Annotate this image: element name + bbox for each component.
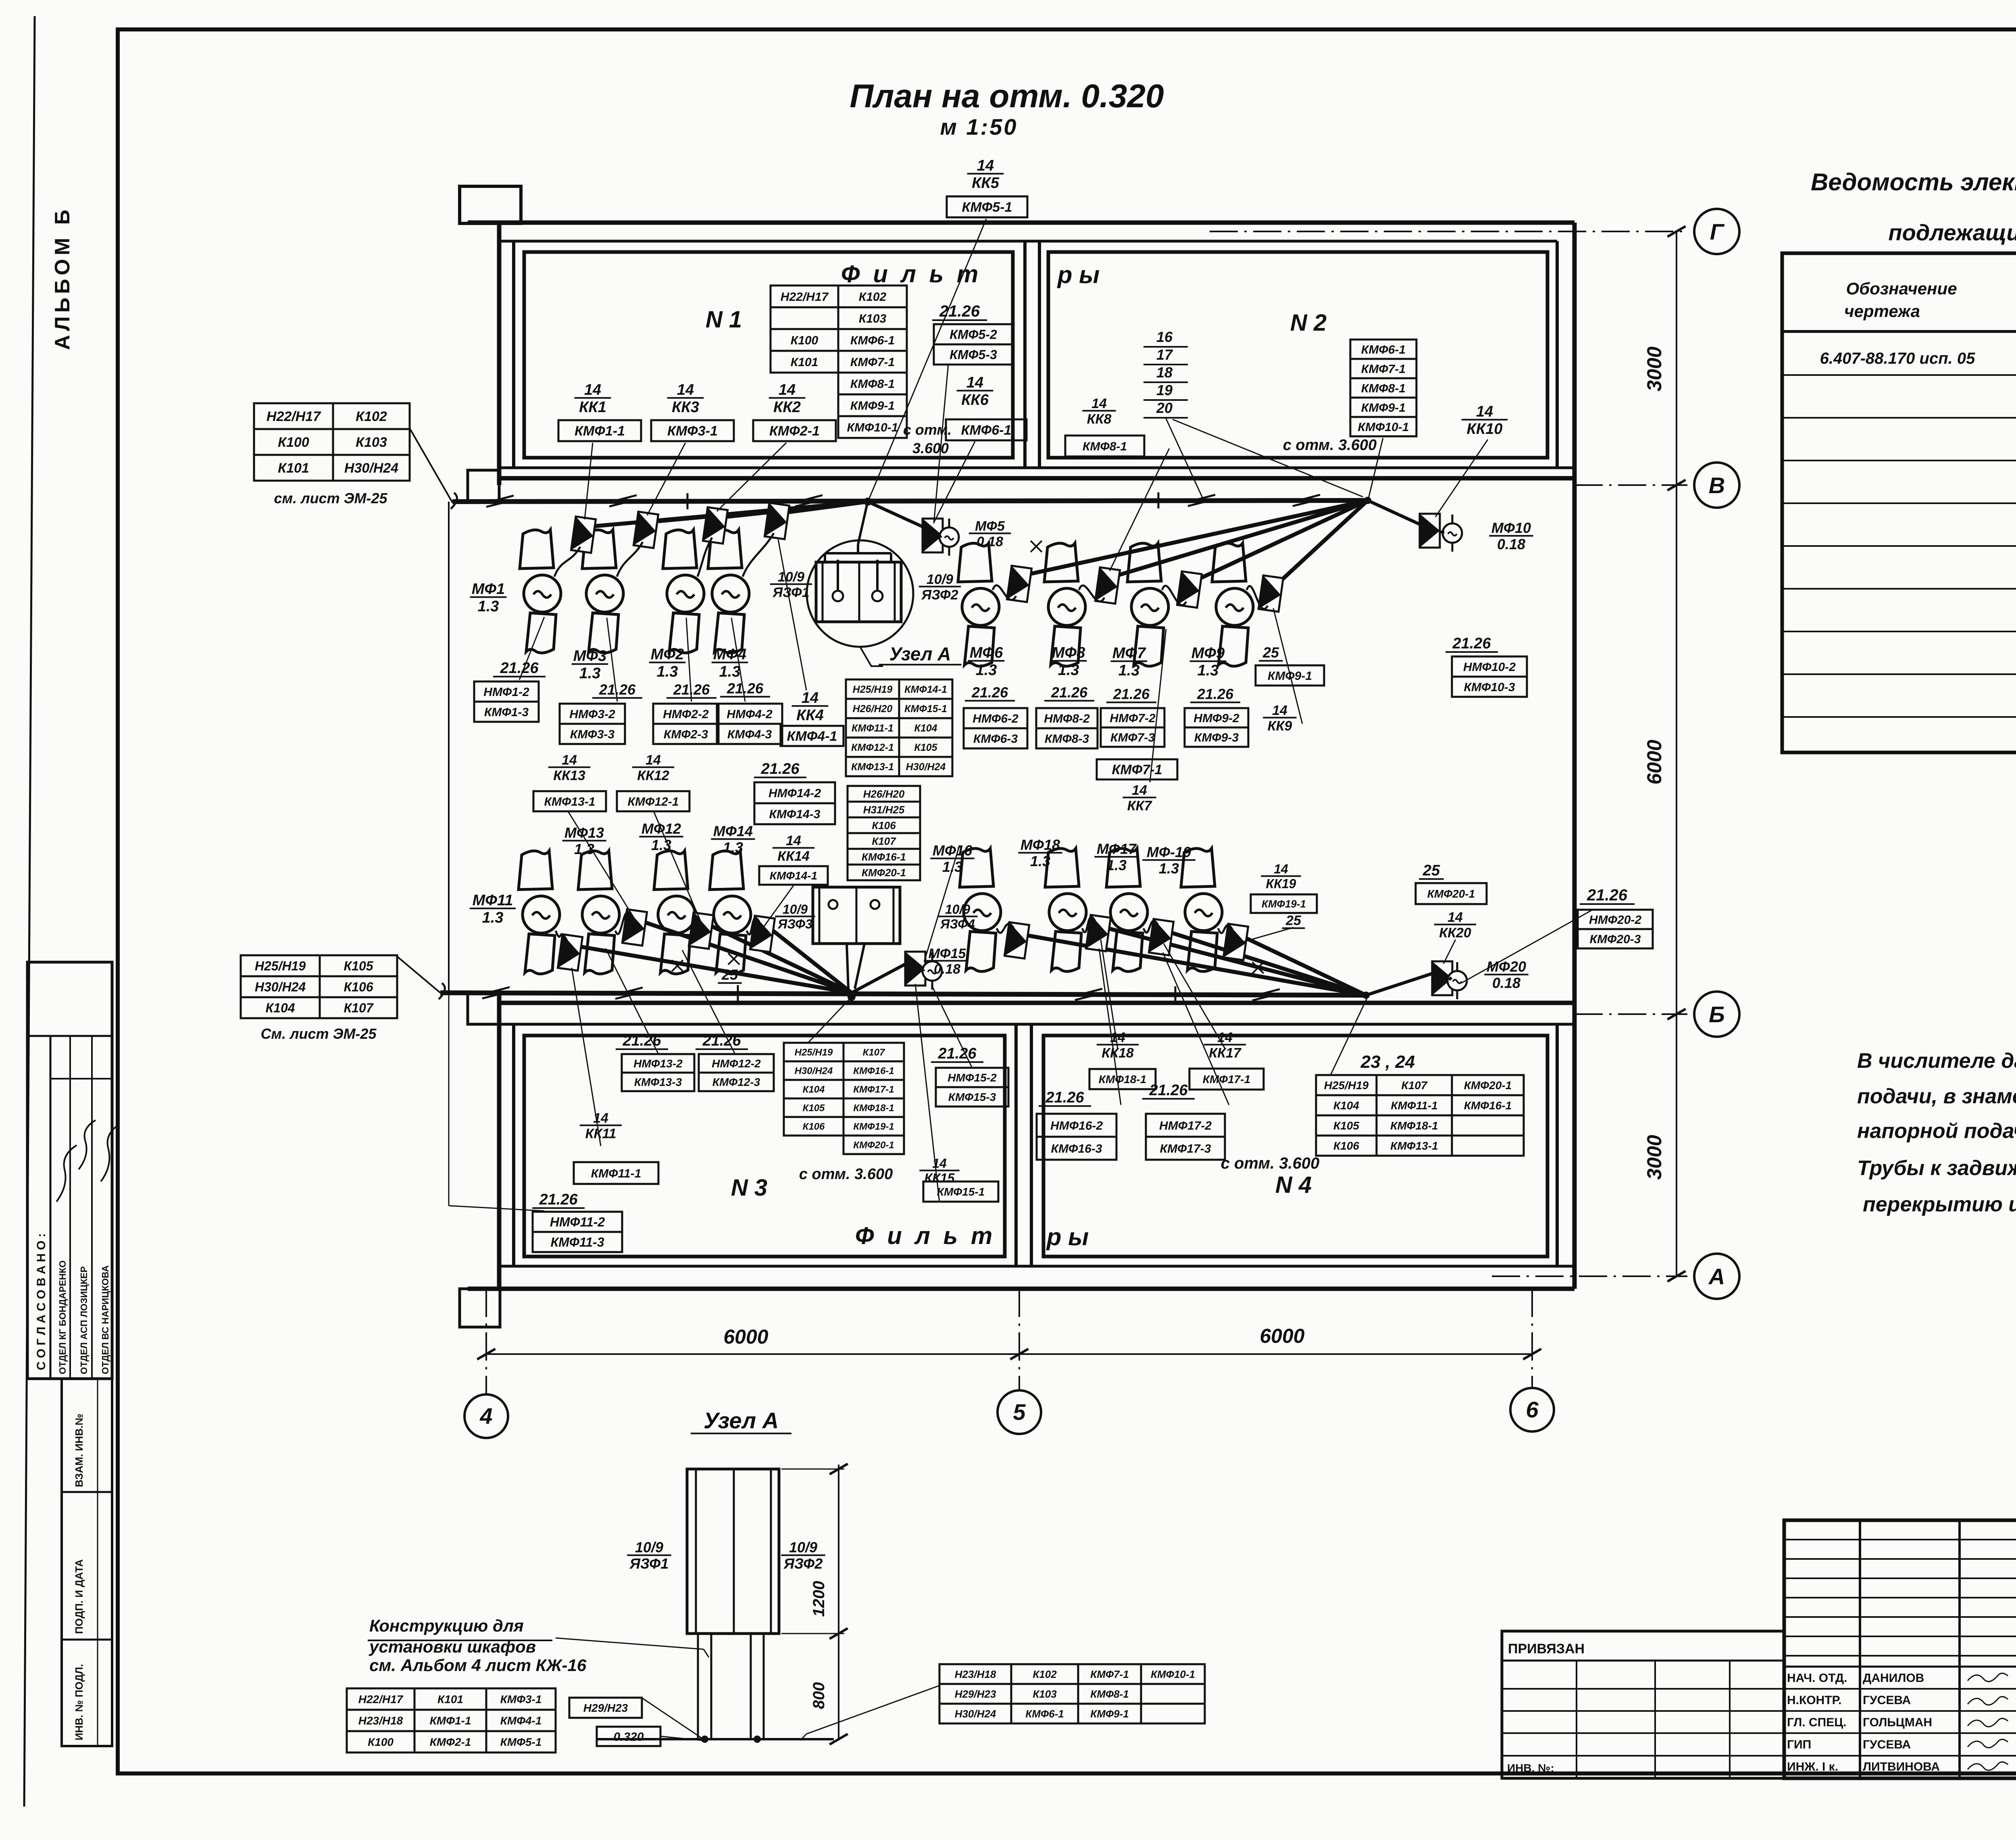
svg-text:К102: К102: [1033, 1668, 1057, 1680]
svg-text:18: 18: [1156, 364, 1173, 381]
svg-text:КК11: КК11: [585, 1126, 616, 1141]
svg-text:К107: К107: [1402, 1079, 1428, 1092]
svg-text:0.18: 0.18: [1492, 975, 1520, 991]
svg-text:К104: К104: [803, 1084, 825, 1095]
svg-text:КК4: КК4: [796, 707, 824, 724]
svg-text:КМФ4-3: КМФ4-3: [727, 728, 772, 741]
svg-text:К101: К101: [791, 356, 818, 369]
svg-text:ВЗАМ. ИНВ.№: ВЗАМ. ИНВ.№: [73, 1414, 85, 1487]
svg-text:КМФ5-3: КМФ5-3: [950, 348, 997, 362]
svg-text:14: 14: [1272, 703, 1287, 718]
svg-text:НМФ3-2: НМФ3-2: [569, 708, 615, 721]
svg-text:АЛЬБОМ Б: АЛЬБОМ Б: [51, 206, 74, 350]
svg-text:21.26: 21.26: [599, 681, 636, 698]
svg-text:с отм.: с отм.: [903, 421, 952, 438]
svg-text:МФ6: МФ6: [970, 644, 1003, 661]
svg-text:ДАНИЛОВ: ДАНИЛОВ: [1863, 1671, 1924, 1685]
svg-text:КМФ11-1: КМФ11-1: [591, 1167, 641, 1180]
svg-text:1200: 1200: [810, 1581, 828, 1617]
svg-text:КМФ10-1: КМФ10-1: [1151, 1668, 1195, 1680]
svg-text:с отм. 3.600: с отм. 3.600: [799, 1166, 893, 1183]
svg-text:КМФ8-1: КМФ8-1: [850, 377, 895, 391]
svg-text:23 , 24: 23 , 24: [1360, 1052, 1415, 1072]
svg-text:Конструкцию для: Конструкцию для: [369, 1616, 524, 1635]
svg-text:см. Альбом 4 лист КЖ-16: см. Альбом 4 лист КЖ-16: [369, 1656, 587, 1675]
svg-text:КК3: КК3: [672, 399, 699, 416]
svg-text:НМФ10-2: НМФ10-2: [1463, 661, 1516, 674]
svg-text:НМФ8-2: НМФ8-2: [1044, 712, 1090, 725]
svg-text:НМФ14-2: НМФ14-2: [768, 787, 821, 800]
svg-text:КМФ20-1: КМФ20-1: [1427, 888, 1475, 900]
svg-text:21.26: 21.26: [760, 761, 800, 777]
svg-text:НМФ9-2: НМФ9-2: [1193, 712, 1239, 725]
svg-text:ЯЗФ1: ЯЗФ1: [772, 585, 809, 600]
svg-text:17: 17: [1156, 346, 1173, 363]
svg-text:КК20: КК20: [1439, 925, 1471, 940]
svg-text:К105: К105: [914, 742, 937, 753]
svg-text:КМФ17-3: КМФ17-3: [1160, 1142, 1211, 1155]
svg-text:Ф и л ь т: Ф и л ь т: [855, 1222, 996, 1249]
svg-text:ИНВ. №:: ИНВ. №:: [1507, 1762, 1554, 1774]
svg-text:1.3: 1.3: [478, 598, 499, 615]
svg-text:10/9: 10/9: [783, 902, 808, 917]
svg-text:Н23/Н18: Н23/Н18: [955, 1668, 996, 1680]
svg-text:К100: К100: [278, 435, 309, 450]
svg-text:В числителе данные для вари: В числителе данные для варианта самотечн…: [1857, 1049, 2016, 1073]
svg-text:КК13: КК13: [553, 768, 585, 783]
svg-text:21.26: 21.26: [1452, 635, 1491, 652]
svg-text:14: 14: [646, 752, 661, 768]
svg-text:КМФ11-3: КМФ11-3: [551, 1235, 604, 1250]
svg-text:Н30/Н24: Н30/Н24: [795, 1066, 833, 1077]
svg-text:КМФ13-1: КМФ13-1: [851, 761, 894, 773]
svg-text:ГОЛЬЦМАН: ГОЛЬЦМАН: [1863, 1716, 1932, 1729]
svg-text:МФ17: МФ17: [1097, 841, 1137, 857]
svg-text:ГИП: ГИП: [1787, 1738, 1811, 1751]
svg-text:КМФ16-1: КМФ16-1: [1464, 1099, 1512, 1112]
svg-text:НМФ2-2: НМФ2-2: [663, 708, 709, 721]
svg-text:КМФ3-1: КМФ3-1: [667, 423, 718, 439]
svg-text:1.3: 1.3: [1030, 853, 1050, 869]
svg-text:МФ20: МФ20: [1487, 959, 1526, 975]
svg-text:К107: К107: [872, 835, 896, 847]
svg-text:НМФ7-2: НМФ7-2: [1110, 712, 1156, 725]
svg-text:0.18: 0.18: [1497, 536, 1525, 552]
svg-text:К101: К101: [437, 1693, 463, 1706]
svg-text:14: 14: [562, 752, 577, 768]
svg-text:1.3: 1.3: [1118, 662, 1140, 679]
svg-text:Н22/Н17: Н22/Н17: [358, 1693, 404, 1706]
svg-text:МФ5: МФ5: [975, 519, 1005, 534]
svg-text:1.3: 1.3: [1198, 662, 1219, 679]
svg-text:КМФ8-1: КМФ8-1: [1090, 1688, 1129, 1700]
svg-text:1.3: 1.3: [942, 859, 962, 875]
svg-text:КМФ16-1: КМФ16-1: [862, 851, 906, 863]
svg-text:Н30/Н24: Н30/Н24: [955, 1708, 996, 1720]
svg-text:перекрытию и крепить скобам: перекрытию и крепить скобами.: [1863, 1193, 2016, 1216]
svg-text:КМФ7-3: КМФ7-3: [1110, 731, 1155, 744]
svg-text:К104: К104: [265, 1001, 295, 1015]
svg-text:Н26/Н20: Н26/Н20: [863, 788, 905, 800]
svg-text:МФ11: МФ11: [473, 892, 513, 909]
svg-text:Н31/Н25: Н31/Н25: [863, 804, 905, 816]
svg-text:N 2: N 2: [1290, 310, 1327, 336]
svg-text:14: 14: [977, 157, 994, 174]
svg-text:установки шкафов: установки шкафов: [369, 1637, 536, 1656]
svg-text:КМФ17-1: КМФ17-1: [1203, 1073, 1250, 1086]
svg-text:1.3: 1.3: [657, 663, 678, 680]
svg-text:подлежащих изготовлению в мэ: подлежащих изготовлению в мэз: [1888, 220, 2016, 245]
svg-text:25: 25: [721, 967, 738, 983]
svg-text:Обозначение: Обозначение: [1846, 279, 1957, 298]
svg-text:К104: К104: [1333, 1099, 1359, 1112]
svg-text:К105: К105: [803, 1103, 825, 1114]
svg-text:14: 14: [1476, 403, 1493, 420]
svg-text:21.26: 21.26: [1197, 686, 1234, 702]
svg-text:Узел А: Узел А: [889, 644, 951, 665]
svg-text:25: 25: [1422, 862, 1440, 879]
svg-text:14: 14: [584, 381, 601, 398]
svg-text:0.18: 0.18: [934, 961, 960, 977]
svg-text:КМФ5-1: КМФ5-1: [962, 200, 1012, 215]
svg-text:Н25/Н19: Н25/Н19: [1324, 1079, 1369, 1092]
svg-text:НМФ20-2: НМФ20-2: [1589, 913, 1641, 927]
svg-text:Н23/Н18: Н23/Н18: [358, 1715, 403, 1727]
svg-text:КМФ7-1: КМФ7-1: [1361, 363, 1406, 376]
svg-text:КМФ1-3: КМФ1-3: [484, 706, 529, 719]
svg-text:КМФ3-3: КМФ3-3: [570, 728, 615, 741]
svg-text:Ведомость электромонтажных к: Ведомость электромонтажных конструкций: [1811, 169, 2016, 196]
svg-text:МФ10: МФ10: [1491, 520, 1531, 536]
svg-text:КМФ15-3: КМФ15-3: [948, 1091, 996, 1103]
svg-text:14: 14: [1091, 396, 1107, 411]
svg-text:КМФ10-1: КМФ10-1: [847, 421, 898, 434]
svg-text:подачи, в знаменателе данные: подачи, в знаменателе данные для вариант…: [1857, 1085, 2016, 1108]
svg-text:Г: Г: [1710, 219, 1725, 244]
svg-text:К101: К101: [278, 461, 309, 476]
svg-text:КМФ9-1: КМФ9-1: [1090, 1708, 1129, 1720]
svg-text:МФ16: МФ16: [933, 842, 973, 859]
svg-text:1.3: 1.3: [976, 662, 997, 679]
svg-text:КМФ13-1: КМФ13-1: [544, 795, 596, 809]
svg-text:КМФ6-1: КМФ6-1: [1361, 343, 1406, 356]
svg-text:21.26: 21.26: [500, 660, 539, 677]
svg-text:КМФ11-1: КМФ11-1: [852, 723, 893, 734]
svg-text:КМФ20-1: КМФ20-1: [1464, 1079, 1512, 1092]
svg-text:0.18: 0.18: [977, 534, 1003, 549]
svg-text:КМФ10-1: КМФ10-1: [1358, 421, 1409, 434]
svg-text:Н30/Н24: Н30/Н24: [255, 980, 306, 994]
svg-text:НМФ13-2: НМФ13-2: [633, 1057, 683, 1070]
svg-text:КМФ6-1: КМФ6-1: [850, 334, 895, 347]
svg-text:Узел А: Узел А: [704, 1408, 779, 1433]
svg-text:6.407-88.170 исп. 05: 6.407-88.170 исп. 05: [1820, 350, 1975, 367]
svg-text:ЯЗФ4: ЯЗФ4: [940, 917, 975, 931]
svg-text:К106: К106: [803, 1121, 825, 1132]
svg-text:К104: К104: [914, 723, 937, 734]
svg-text:А: А: [1708, 1264, 1725, 1289]
svg-text:МФ4: МФ4: [713, 646, 746, 663]
svg-text:КМФ1-1: КМФ1-1: [575, 423, 625, 439]
svg-text:КК2: КК2: [773, 399, 801, 416]
svg-text:м 1:50: м 1:50: [940, 114, 1018, 140]
svg-text:КК14: КК14: [777, 848, 810, 864]
svg-text:КМФ13-3: КМФ13-3: [634, 1076, 682, 1088]
svg-text:N 3: N 3: [731, 1175, 767, 1201]
svg-text:ЛИТВИНОВА: ЛИТВИНОВА: [1863, 1760, 1940, 1773]
svg-text:Н29/Н23: Н29/Н23: [955, 1688, 996, 1700]
svg-text:0.320: 0.320: [613, 1730, 644, 1744]
svg-text:5: 5: [1013, 1399, 1026, 1425]
svg-text:ИНВ. № ПОДЛ.: ИНВ. № ПОДЛ.: [73, 1664, 85, 1740]
svg-text:КК19: КК19: [1266, 876, 1296, 891]
svg-text:Н22/Н17: Н22/Н17: [267, 409, 321, 424]
svg-text:КМФ10-3: КМФ10-3: [1464, 681, 1515, 694]
svg-text:НМФ17-2: НМФ17-2: [1159, 1119, 1212, 1132]
svg-text:КМФ8-1: КМФ8-1: [1083, 440, 1127, 453]
svg-text:Н25/Н19: Н25/Н19: [853, 684, 893, 695]
svg-text:КК6: КК6: [961, 392, 989, 408]
svg-text:4: 4: [479, 1403, 492, 1429]
svg-text:ГУСЕВА: ГУСЕВА: [1863, 1738, 1911, 1751]
svg-text:10/9: 10/9: [789, 1539, 817, 1556]
svg-text:Н29/Н23: Н29/Н23: [583, 1702, 628, 1714]
svg-text:КМФ14-1: КМФ14-1: [770, 869, 817, 882]
svg-text:КМФ6-3: КМФ6-3: [973, 732, 1018, 746]
svg-text:21.26: 21.26: [702, 1032, 741, 1049]
svg-text:14: 14: [677, 381, 694, 398]
svg-text:НМФ11-2: НМФ11-2: [550, 1215, 605, 1229]
svg-text:КК17: КК17: [1209, 1045, 1242, 1061]
svg-text:МФ1: МФ1: [472, 581, 505, 598]
svg-text:Н26/Н20: Н26/Н20: [853, 703, 893, 715]
svg-text:КК1: КК1: [579, 399, 606, 416]
svg-text:КМФ12-3: КМФ12-3: [712, 1076, 760, 1088]
svg-text:КК15: КК15: [925, 1171, 955, 1185]
svg-text:напорной подачи.: напорной подачи.: [1857, 1119, 2016, 1143]
svg-text:КК7: КК7: [1127, 798, 1153, 813]
svg-text:КМФ8-1: КМФ8-1: [1361, 382, 1406, 395]
svg-text:КК8: КК8: [1087, 411, 1112, 427]
svg-text:1.3: 1.3: [1106, 857, 1127, 873]
svg-text:К106: К106: [872, 819, 896, 831]
svg-text:21.26: 21.26: [622, 1032, 661, 1049]
svg-text:МФ8: МФ8: [1052, 644, 1085, 661]
svg-text:КМФ9-3: КМФ9-3: [1194, 731, 1239, 744]
svg-text:с отм. 3.600: с отм. 3.600: [1283, 437, 1377, 454]
svg-text:МФ3: МФ3: [573, 648, 606, 665]
svg-text:1.3: 1.3: [1058, 662, 1079, 679]
svg-text:10/9: 10/9: [635, 1539, 663, 1556]
svg-text:КМФ6-1: КМФ6-1: [961, 423, 1012, 438]
svg-text:К105: К105: [344, 959, 373, 973]
svg-text:МФ14: МФ14: [713, 823, 753, 840]
svg-text:КМФ7-1: КМФ7-1: [1112, 762, 1162, 777]
svg-text:К103: К103: [356, 435, 387, 450]
svg-text:Н30/Н24: Н30/Н24: [344, 461, 398, 476]
svg-text:3000: 3000: [1643, 346, 1666, 391]
svg-text:НМФ16-2: НМФ16-2: [1050, 1119, 1103, 1132]
svg-text:ОТДЕЛ АСП ЛОЗИЦКЕР: ОТДЕЛ АСП ЛОЗИЦКЕР: [79, 1266, 89, 1374]
svg-text:КМФ2-3: КМФ2-3: [664, 728, 708, 741]
svg-text:МФ7: МФ7: [1112, 645, 1146, 662]
svg-text:КМФ13-1: КМФ13-1: [1390, 1140, 1438, 1152]
svg-text:21.26: 21.26: [539, 1191, 578, 1208]
svg-text:21.26: 21.26: [1045, 1089, 1084, 1106]
svg-text:КМФ18-1: КМФ18-1: [1390, 1119, 1438, 1132]
svg-text:21.26: 21.26: [727, 680, 764, 697]
svg-text:ОТДЕЛ ВС НАРИЦКОВА: ОТДЕЛ ВС НАРИЦКОВА: [100, 1265, 110, 1374]
svg-text:6000: 6000: [723, 1325, 768, 1348]
svg-text:КМФ18-1: КМФ18-1: [1099, 1073, 1146, 1086]
svg-text:ГЛ. СПЕЦ.: ГЛ. СПЕЦ.: [1787, 1716, 1846, 1729]
svg-text:КМФ17-1: КМФ17-1: [853, 1084, 894, 1095]
svg-text:КМФ6-1: КМФ6-1: [1025, 1708, 1064, 1720]
svg-text:КМФ7-1: КМФ7-1: [850, 356, 895, 369]
svg-text:25: 25: [1285, 913, 1302, 928]
svg-text:р ы: р ы: [1046, 1223, 1089, 1250]
svg-text:ЯЗФ3: ЯЗФ3: [777, 917, 812, 931]
svg-text:21.26: 21.26: [1587, 886, 1628, 904]
svg-text:800: 800: [810, 1682, 828, 1709]
svg-text:10/9: 10/9: [945, 902, 970, 917]
svg-text:чертежа: чертежа: [1844, 302, 1920, 321]
svg-text:21.26: 21.26: [971, 684, 1008, 701]
svg-text:1.3: 1.3: [579, 665, 601, 682]
svg-text:1.3: 1.3: [723, 839, 743, 856]
svg-text:К106: К106: [1333, 1140, 1359, 1152]
svg-text:К107: К107: [863, 1047, 885, 1058]
svg-text:3.600: 3.600: [912, 440, 949, 456]
svg-text:КМФ2-1: КМФ2-1: [430, 1736, 471, 1748]
svg-text:КМФ20-1: КМФ20-1: [862, 867, 906, 879]
svg-text:См. лист ЭМ-25: См. лист ЭМ-25: [261, 1025, 377, 1042]
svg-text:План на отм. 0.320: План на отм. 0.320: [850, 78, 1164, 115]
svg-text:14: 14: [1217, 1030, 1233, 1045]
svg-text:21.26: 21.26: [1051, 684, 1088, 701]
svg-text:25: 25: [1262, 644, 1279, 661]
svg-text:ОТДЕЛ КГ БОНДАРЕНКО: ОТДЕЛ КГ БОНДАРЕНКО: [57, 1261, 68, 1374]
svg-text:НАЧ. ОТД.: НАЧ. ОТД.: [1787, 1671, 1847, 1685]
svg-text:К105: К105: [1333, 1119, 1359, 1132]
svg-text:КМФ5-2: КМФ5-2: [950, 327, 997, 342]
svg-text:КМФ5-1: КМФ5-1: [500, 1736, 542, 1748]
svg-text:НМФ1-2: НМФ1-2: [483, 686, 529, 699]
svg-text:Б: Б: [1709, 1002, 1725, 1027]
svg-text:Н25/Н19: Н25/Н19: [795, 1047, 833, 1058]
svg-text:КМФ16-3: КМФ16-3: [1051, 1142, 1102, 1155]
svg-text:КМФ3-1: КМФ3-1: [500, 1693, 542, 1706]
svg-text:НМФ4-2: НМФ4-2: [727, 708, 773, 721]
svg-text:ЯЗФ1: ЯЗФ1: [629, 1555, 669, 1572]
svg-text:КМФ2-1: КМФ2-1: [769, 423, 820, 439]
svg-text:К106: К106: [344, 980, 373, 994]
svg-text:см. лист ЭМ-25: см. лист ЭМ-25: [274, 490, 388, 506]
svg-text:МФ2: МФ2: [651, 646, 684, 663]
svg-text:КМФ16-1: КМФ16-1: [853, 1066, 894, 1077]
svg-text:КМФ19-1: КМФ19-1: [1262, 898, 1306, 910]
svg-text:Ф и л ь т: Ф и л ь т: [841, 260, 981, 288]
svg-text:14: 14: [966, 374, 983, 391]
svg-text:МФ9: МФ9: [1191, 645, 1225, 662]
svg-text:МФ-19: МФ-19: [1147, 844, 1191, 861]
svg-text:КК10: КК10: [1467, 421, 1503, 438]
svg-text:КМФ8-3: КМФ8-3: [1045, 732, 1089, 746]
svg-text:КМФ9-1: КМФ9-1: [850, 399, 895, 413]
svg-text:Н22/Н17: Н22/Н17: [781, 290, 829, 304]
svg-text:КМФ1-1: КМФ1-1: [430, 1715, 471, 1727]
svg-text:К102: К102: [859, 290, 887, 304]
svg-text:14: 14: [1447, 910, 1463, 925]
svg-text:14: 14: [1274, 862, 1288, 876]
svg-text:КМФ4-1: КМФ4-1: [787, 729, 837, 744]
svg-text:14: 14: [1132, 783, 1147, 798]
svg-text:N 1: N 1: [706, 306, 742, 333]
svg-text:19: 19: [1156, 382, 1173, 398]
svg-text:КМФ15-1: КМФ15-1: [904, 703, 947, 715]
svg-text:Н30/Н24: Н30/Н24: [906, 761, 946, 773]
svg-text:21.26: 21.26: [1113, 686, 1150, 702]
svg-text:КК9: КК9: [1268, 718, 1292, 733]
svg-text:К100: К100: [368, 1736, 394, 1748]
svg-text:КМФ19-1: КМФ19-1: [853, 1121, 894, 1132]
svg-text:6000: 6000: [1260, 1325, 1304, 1347]
svg-text:1.3: 1.3: [719, 663, 741, 680]
svg-text:3000: 3000: [1643, 1135, 1666, 1179]
svg-text:КК5: КК5: [972, 175, 1000, 192]
svg-text:К102: К102: [356, 409, 387, 424]
svg-text:В: В: [1709, 473, 1725, 498]
svg-text:14: 14: [779, 381, 796, 398]
svg-text:КМФ12-1: КМФ12-1: [851, 742, 894, 753]
svg-text:6: 6: [1526, 1397, 1539, 1422]
svg-text:ЯЗФ2: ЯЗФ2: [921, 587, 958, 602]
svg-text:14: 14: [802, 690, 818, 706]
svg-text:КМФ14-3: КМФ14-3: [769, 808, 821, 821]
svg-text:МФ15: МФ15: [929, 946, 966, 961]
svg-text:НМФ15-2: НМФ15-2: [948, 1071, 997, 1084]
svg-text:КМФ9-1: КМФ9-1: [1361, 401, 1406, 415]
svg-text:20: 20: [1156, 400, 1173, 416]
svg-text:с отм. 3.600: с отм. 3.600: [1221, 1154, 1320, 1172]
svg-text:ИНЖ. I к.: ИНЖ. I к.: [1787, 1760, 1838, 1773]
svg-text:С О Г Л А С О В А Н О :: С О Г Л А С О В А Н О :: [35, 1233, 48, 1370]
svg-text:КМФ20-3: КМФ20-3: [1590, 933, 1641, 946]
svg-text:21.26: 21.26: [937, 1045, 977, 1062]
svg-text:ПРИВЯЗАН: ПРИВЯЗАН: [1508, 1641, 1585, 1657]
svg-text:ГУСЕВА: ГУСЕВА: [1863, 1694, 1911, 1707]
svg-text:КМФ15-1: КМФ15-1: [937, 1186, 985, 1198]
svg-text:КК12: КК12: [637, 768, 669, 783]
svg-text:Н.КОНТР.: Н.КОНТР.: [1787, 1694, 1841, 1707]
svg-text:10/9: 10/9: [778, 569, 804, 585]
svg-text:К107: К107: [344, 1001, 374, 1015]
svg-text:КМФ14-1: КМФ14-1: [904, 684, 947, 695]
svg-text:Трубы к задвижкам проложить: Трубы к задвижкам проложить по рефленому: [1857, 1157, 2016, 1180]
svg-text:МФ18: МФ18: [1020, 837, 1060, 853]
svg-text:КМФ4-1: КМФ4-1: [500, 1715, 542, 1727]
svg-text:ЯЗФ2: ЯЗФ2: [783, 1555, 823, 1572]
svg-text:6000: 6000: [1643, 740, 1666, 784]
svg-text:НМФ6-2: НМФ6-2: [973, 712, 1018, 725]
svg-text:КМФ12-1: КМФ12-1: [628, 795, 679, 809]
svg-text:КМФ18-1: КМФ18-1: [853, 1103, 894, 1114]
svg-text:К103: К103: [859, 312, 887, 325]
svg-text:К100: К100: [791, 334, 818, 347]
svg-text:ПОДП. И ДАТА: ПОДП. И ДАТА: [73, 1559, 85, 1634]
svg-text:Н25/Н19: Н25/Н19: [255, 959, 306, 973]
svg-text:КМФ11-1: КМФ11-1: [1391, 1099, 1437, 1112]
